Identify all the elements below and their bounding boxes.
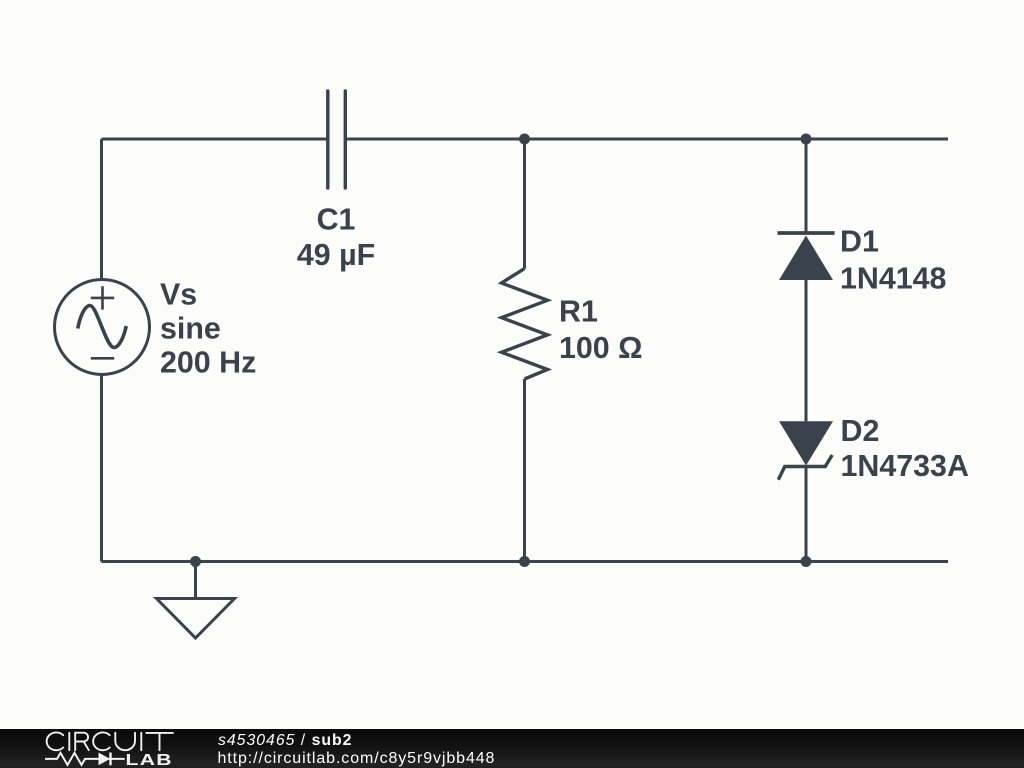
- wire D1-D2 middle: [805, 280, 808, 421]
- node junction top R1: [519, 134, 530, 145]
- label D1 name/value: [840, 225, 946, 296]
- diode D1: [778, 233, 835, 280]
- logo LAB text: [126, 750, 173, 768]
- label D2 name/value: [841, 414, 969, 483]
- ground: [157, 562, 235, 639]
- wire R1 top lead: [523, 139, 526, 269]
- wire D1 top lead: [805, 139, 808, 233]
- node junction ground: [190, 556, 201, 567]
- capacitor C1: [328, 91, 346, 188]
- footer bar: [0, 729, 1024, 768]
- wire left vertical upper: [100, 139, 103, 281]
- svg-text:LAB: LAB: [126, 750, 173, 768]
- svg-text:http://circuitlab.com/c8y5r9vj: http://circuitlab.com/c8y5r9vjbb448: [218, 750, 496, 767]
- resistor R1: [502, 269, 548, 379]
- wire left vertical lower: [100, 374, 103, 562]
- zener diode D2: [778, 421, 833, 480]
- label C1 name/value: [297, 203, 375, 272]
- node junction top D1: [801, 134, 812, 145]
- wire bottom horizontal: [102, 560, 949, 563]
- logo CIRCUIT text: [47, 732, 173, 750]
- label Vs name/value: [160, 278, 256, 380]
- wire R1 bottom lead: [523, 379, 526, 562]
- svg-text:s4530465 / sub2: s4530465 / sub2: [218, 732, 352, 749]
- wire top-right segment: [345, 138, 948, 141]
- node junction bottom D2: [801, 556, 812, 567]
- footer id text: [218, 732, 496, 767]
- voltage source Vs: [55, 280, 150, 375]
- logo resistor-diode glyph: [45, 753, 125, 766]
- wire D2 bottom lead: [805, 467, 808, 562]
- label R1 name/value: [559, 295, 643, 366]
- wire top-left segment: [102, 138, 328, 141]
- node junction bottom R1: [519, 556, 530, 567]
